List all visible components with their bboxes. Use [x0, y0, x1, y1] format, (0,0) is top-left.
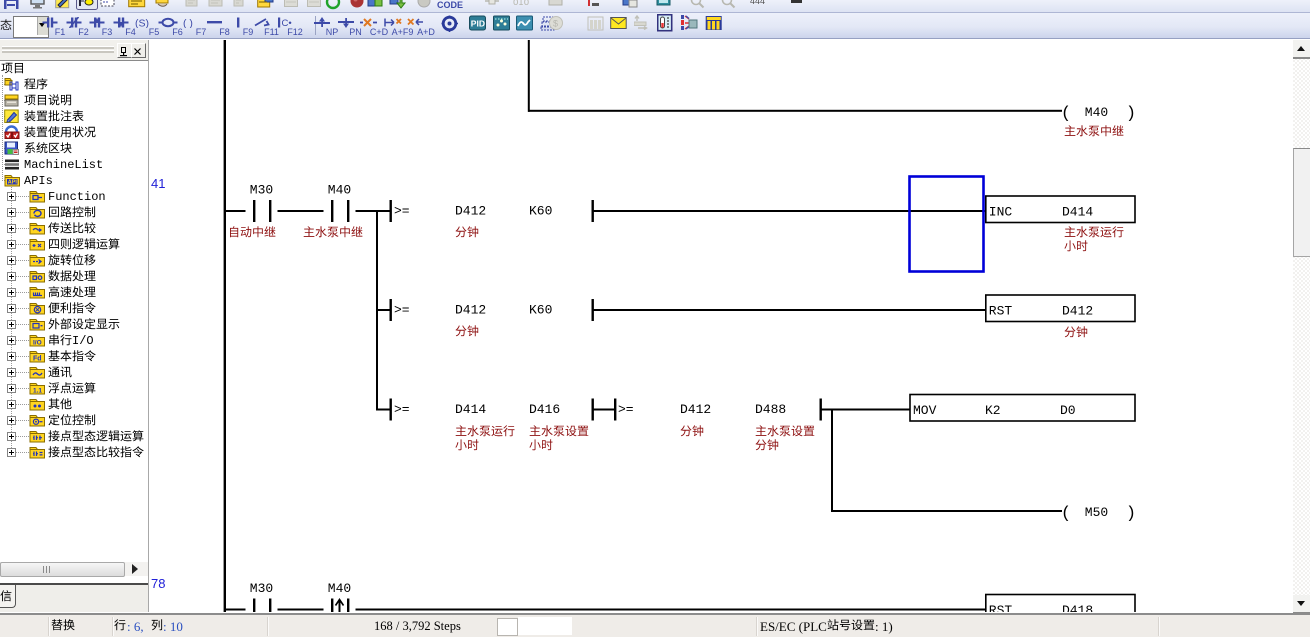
svg-text:41: 41	[151, 176, 165, 191]
comment label	[228, 226, 278, 241]
svg-text:D488: D488	[755, 402, 786, 417]
contact M30	[253, 599, 255, 621]
wire branch vertical	[376, 210, 378, 411]
comment label	[455, 325, 481, 340]
svg-text:K2: K2	[985, 403, 1001, 418]
wire prev-rung horizontal	[528, 110, 1062, 112]
svg-text:): )	[1126, 505, 1136, 524]
instruction box RST D412	[986, 295, 1135, 322]
comment label	[1064, 226, 1126, 241]
svg-text:M40: M40	[328, 183, 351, 198]
wire prev-rung vertical	[528, 40, 530, 112]
wire cmp4 to MOV box	[821, 409, 911, 411]
wire branch to M50 coil	[831, 510, 1062, 512]
svg-text:D412: D412	[455, 303, 486, 318]
instruction box INC D414	[986, 196, 1135, 223]
edit cursor (blue)	[910, 177, 984, 272]
compare contact CMP4 >= D412 D488	[614, 399, 616, 421]
svg-text:D414: D414	[1062, 205, 1093, 220]
svg-text:>=: >=	[394, 402, 410, 417]
instruction box MOV K2 D0	[910, 395, 1135, 422]
wire cmp2 to RST box	[593, 309, 986, 311]
comment label	[455, 439, 481, 454]
svg-text:D0: D0	[1060, 403, 1076, 418]
svg-text:MOV: MOV	[913, 403, 937, 418]
comment label	[755, 439, 781, 454]
svg-text:D412: D412	[455, 204, 486, 219]
wire cmp3 to cmp4	[593, 409, 615, 411]
contact M40	[331, 200, 333, 222]
instruction box RST D418	[986, 595, 1135, 622]
svg-text:>=: >=	[394, 303, 410, 318]
svg-text:M40: M40	[328, 581, 351, 596]
svg-text:M30: M30	[250, 581, 273, 596]
wire cmp to INC box	[593, 210, 986, 212]
wire M30 to M40 (rung78)	[278, 609, 324, 611]
svg-text:(: (	[1061, 104, 1071, 123]
comment label	[1064, 326, 1090, 341]
svg-text:M40: M40	[1085, 105, 1108, 120]
comment label	[455, 226, 481, 241]
wire branch to cmp2	[377, 309, 391, 311]
svg-text:D412: D412	[680, 402, 711, 417]
wire rail to M30 (rung78)	[226, 609, 246, 611]
svg-text:RST: RST	[989, 304, 1013, 319]
comment label	[1064, 125, 1126, 140]
wire branch vertical to M50	[831, 409, 833, 513]
left power rail	[224, 40, 226, 612]
svg-text:RST: RST	[989, 603, 1013, 612]
svg-text:K60: K60	[529, 303, 552, 318]
contact M30	[253, 200, 255, 222]
svg-text:78: 78	[151, 576, 165, 591]
svg-text:D414: D414	[455, 402, 486, 417]
wire M40 to RST box (rung78)	[356, 609, 987, 611]
svg-text:M30: M30	[250, 183, 273, 198]
svg-text:INC: INC	[989, 205, 1013, 220]
svg-text:D416: D416	[529, 402, 560, 417]
svg-text:>=: >=	[394, 204, 410, 219]
comment label	[755, 425, 817, 440]
compare contact CMP1 >= D412 K60	[390, 200, 392, 222]
svg-text:D412: D412	[1062, 304, 1093, 319]
svg-text:(: (	[1061, 505, 1071, 524]
svg-text:K60: K60	[529, 204, 552, 219]
wire M30 to M40	[278, 210, 324, 212]
comment label	[529, 425, 591, 440]
comment label	[529, 439, 555, 454]
comment label	[455, 425, 517, 440]
wire M40 to branch	[356, 210, 391, 212]
wire rail to M30	[226, 210, 246, 212]
svg-text:>=: >=	[618, 402, 634, 417]
comment label	[303, 226, 365, 241]
svg-text:M50: M50	[1085, 505, 1108, 520]
comment label	[1064, 240, 1090, 255]
contact M40p	[331, 599, 333, 621]
svg-text:D418: D418	[1062, 603, 1093, 612]
svg-text:): )	[1126, 104, 1136, 123]
wire branch to cmp3	[377, 409, 391, 411]
comment label	[680, 425, 706, 440]
